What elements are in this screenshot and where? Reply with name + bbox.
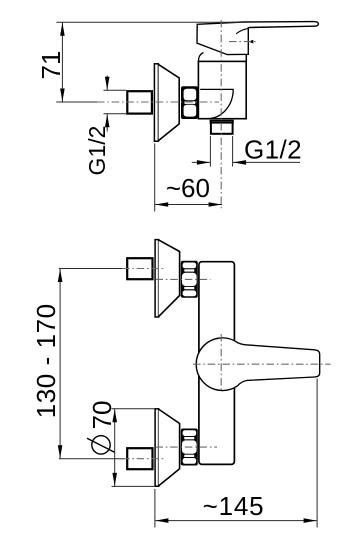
svg-text:G1/2: G1/2 [244,134,302,164]
svg-text:~145: ~145 [203,491,265,521]
svg-text:71: 71 [36,51,66,80]
svg-text:~60: ~60 [166,173,210,203]
svg-text:130 - 170: 130 - 170 [31,303,61,418]
svg-text:G1/2: G1/2 [84,126,110,176]
svg-text:70: 70 [87,401,117,430]
